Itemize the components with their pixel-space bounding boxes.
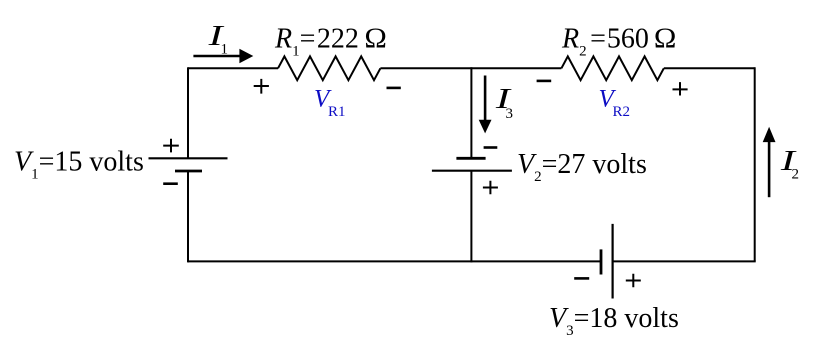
wire right side [754, 67, 756, 261]
wire left side lower [187, 171, 189, 262]
plus sign at R1 left [254, 79, 269, 94]
wire middle lower [470, 171, 472, 263]
resistor R2 [561, 56, 663, 80]
current arrow I2 [763, 127, 776, 197]
current label I2 [779, 146, 799, 182]
source label V3 [549, 303, 679, 339]
source label V2 [517, 149, 647, 185]
minus sign at V1 bottom [163, 182, 178, 185]
minus sign at V2 top [484, 146, 498, 149]
wire top-middle segment [380, 67, 561, 69]
current label I1 [207, 21, 228, 57]
svg-text:R1=222Ω: R1=222Ω [274, 24, 387, 60]
wire middle upper [470, 67, 472, 158]
wire left side upper [187, 67, 189, 158]
minus sign at V3 left [574, 277, 589, 280]
battery V3 positive plate (long) [611, 224, 613, 299]
plus sign at V2 bottom [483, 181, 498, 195]
wire top-left segment [188, 67, 278, 69]
battery V3 negative plate (short) [600, 249, 603, 274]
resistor R1 [278, 56, 380, 80]
svg-text:1: 1 [221, 41, 229, 57]
current arrow I3 [479, 76, 492, 134]
current label I3 [494, 84, 513, 122]
plus sign at V1 top [163, 139, 179, 153]
battery V2 negative plate (short) [456, 157, 485, 160]
svg-text:R2=560Ω: R2=560Ω [561, 24, 676, 60]
wire bottom-left segment [188, 260, 601, 262]
plus sign at V3 right [626, 274, 641, 288]
voltage label VR2 (blue) [599, 86, 631, 121]
minus sign at R1 right [387, 87, 401, 90]
battery V2 positive plate (long) [432, 170, 512, 172]
current arrow I1 [193, 49, 253, 64]
battery V1 negative plate (short) [175, 170, 202, 173]
svg-text:3: 3 [506, 106, 514, 122]
voltage label VR1 (blue) [314, 86, 346, 121]
svg-text:2: 2 [792, 166, 800, 182]
svg-text:R2: R2 [613, 104, 631, 120]
wire top-right segment [664, 67, 755, 69]
source label V1 [14, 147, 144, 183]
minus sign at R2 left [537, 80, 552, 83]
plus sign at R2 right [673, 82, 688, 95]
svg-text:R1: R1 [328, 104, 346, 120]
resistor R1 value label [274, 24, 387, 60]
resistor R2 value label [561, 24, 676, 60]
battery V1 positive plate (long) [149, 157, 228, 159]
wire bottom-right segment [613, 260, 756, 262]
